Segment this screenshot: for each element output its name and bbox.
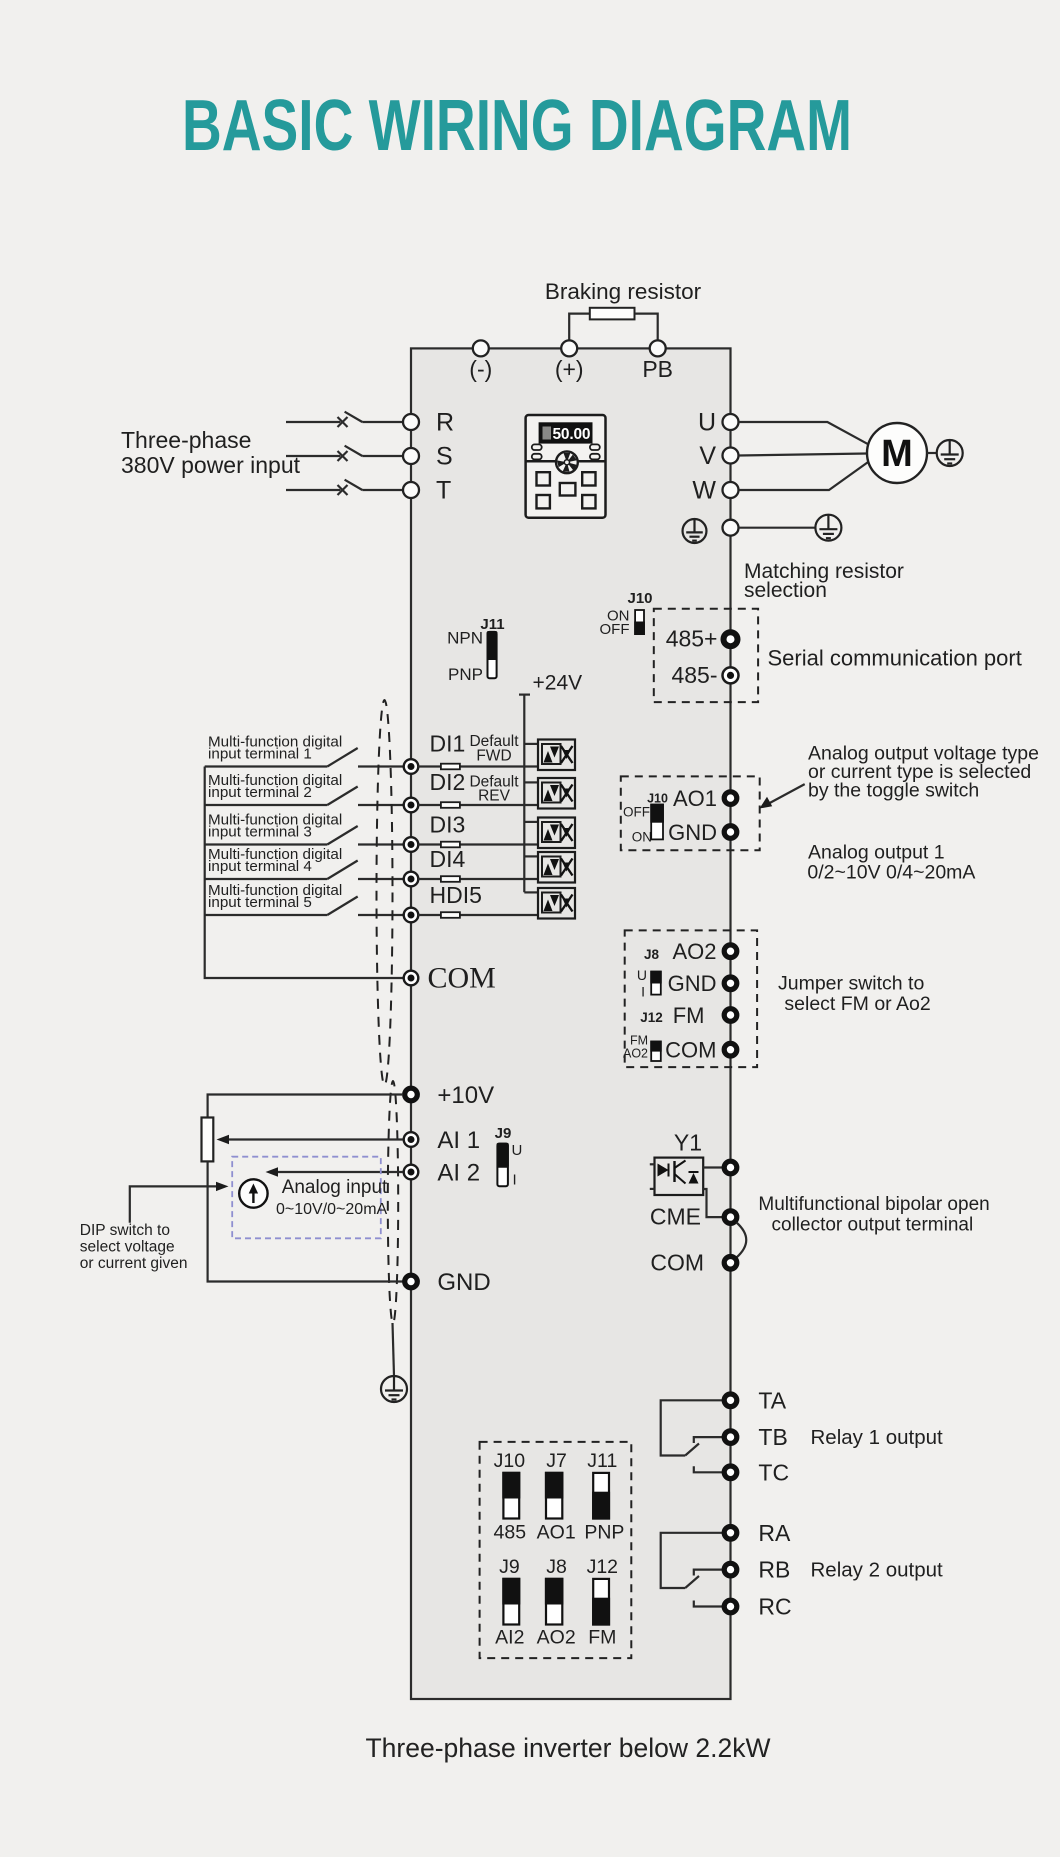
svg-text:PNP: PNP [584,1522,624,1544]
svg-text:GND: GND [668,820,717,845]
svg-text:selection: selection [744,579,827,602]
svg-text:RC: RC [758,1594,791,1620]
terminal GND AO1 [724,826,737,839]
svg-text:J12: J12 [587,1556,618,1578]
svg-text:J7: J7 [546,1450,567,1472]
wire switch common bus [205,767,403,979]
terminal DI3 [404,837,419,852]
terminal (-) [473,340,489,356]
svg-text:J8: J8 [644,947,660,962]
optocoupler HDI5 [538,888,575,919]
terminal RC [724,1600,737,1613]
svg-text:AO1: AO1 [673,786,717,811]
wire potentiometer to GND [208,1161,403,1281]
svg-text:485+: 485+ [666,626,718,652]
wire HDI5 internal [418,914,538,916]
terminal CME [724,1211,737,1224]
optocoupler DI2 [538,778,575,809]
wire CME out [703,1189,722,1217]
svg-text:input terminal 2: input terminal 2 [208,784,312,801]
svg-text:select voltage: select voltage [80,1239,175,1256]
terminal W [723,482,739,498]
terminal AI1 [404,1132,419,1147]
wire DI2 switch leg [205,804,328,806]
svg-text:AI 2: AI 2 [437,1160,480,1187]
switch lever DI3 [327,826,357,845]
jumper switch J11 bank [592,1473,610,1520]
jumper switch J7 bank [545,1472,564,1519]
svg-text:OFF: OFF [623,805,650,820]
svg-text:J12: J12 [640,1010,663,1025]
wire DI1 to terminal [358,765,403,767]
wire opto DI4 feed [524,855,538,857]
terminal FM [724,1009,737,1022]
serial port dashed box [654,609,758,702]
svg-text:V: V [699,442,716,470]
svg-text:J10: J10 [627,590,652,607]
svg-text:AO2: AO2 [537,1627,576,1649]
svg-text:FM: FM [630,1034,648,1048]
wire DI2 to terminal [358,804,403,806]
relay 2 common bracket [661,1533,722,1588]
switch lever DI1 [327,748,357,767]
svg-text:OFF: OFF [600,621,630,638]
wire (+) to braking resistor [569,314,590,349]
resistor DI4 [441,876,460,882]
svg-text:Analog output 1: Analog output 1 [808,842,945,864]
wire input phase R [286,421,340,423]
wire DI4 internal [418,878,538,880]
wire DI3 internal [418,843,538,845]
wire DI2 internal [418,804,538,806]
svg-text:I: I [641,984,645,1000]
terminal RB [724,1563,737,1576]
keypad panel [526,415,606,518]
svg-text:or current given: or current given [80,1255,188,1272]
svg-text:COM: COM [665,1038,716,1063]
terminal V [723,448,739,464]
svg-text:I: I [513,1172,517,1189]
svg-text:FWD: FWD [476,748,511,765]
terminal U [723,414,739,430]
potentiometer body [202,1118,214,1162]
svg-text:0~10V/0~20mA: 0~10V/0~20mA [276,1201,388,1218]
wire PE to earth [739,527,816,529]
jumper switch J9 bank [502,1578,520,1625]
node +24V bar [519,693,530,695]
switch lever DI2 [327,787,357,806]
svg-text:J10: J10 [647,792,668,806]
svg-text:+10V: +10V [437,1082,494,1109]
svg-text:U: U [512,1142,523,1159]
terminal +10V [405,1088,418,1101]
jumper switch J10 (AO1) [650,804,664,840]
wire shield to earth [393,1323,395,1376]
wire +24V rail [523,695,525,893]
svg-text:485: 485 [494,1522,527,1544]
optocoupler DI1 [538,740,575,771]
wire CME-COM link [737,1223,747,1258]
terminal 485- [723,667,739,683]
breaker contact R [338,412,404,427]
jumper switch J9 (U/I) [497,1143,509,1187]
svg-text:50.00: 50.00 [553,426,591,443]
svg-text:HDI5: HDI5 [430,882,482,908]
jumper switch J10 (485) [634,610,645,635]
wire HDI5 to terminal [358,914,403,916]
breaker contact T [338,480,404,495]
svg-text:Three-phase inverter below 2.2: Three-phase inverter below 2.2kW [365,1733,770,1763]
svg-text:J9: J9 [495,1125,512,1142]
wire DI4 to terminal [358,878,403,880]
inverter enclosure box [411,348,731,1699]
wire braking resistor to PB [635,314,658,349]
jumper switch J12 bank [592,1579,610,1626]
wire Y1 out [703,1166,722,1168]
jumper bank dashed box [480,1442,632,1658]
wire HDI5 switch leg [205,914,328,916]
wire input phase S [286,455,340,457]
resistor DI1 [441,764,460,770]
svg-text:BASIC WIRING DIAGRAM: BASIC WIRING DIAGRAM [182,86,852,166]
wire opto DI3 feed [524,821,538,823]
optocoupler DI3 [538,818,575,849]
svg-text:input terminal 1: input terminal 1 [208,746,312,763]
svg-text:COM: COM [650,1250,704,1276]
svg-text:T: T [436,477,451,505]
shield ellipse digital inputs [377,700,393,1085]
relay 2 NO stub [694,1601,722,1607]
svg-text:TB: TB [758,1424,787,1450]
wire opto DI2 feed [524,781,538,783]
jumper switch J12 (FM/AO2) [650,1041,661,1061]
jumper switch J8 bank [545,1578,564,1625]
wire DI4 switch leg [205,878,328,880]
terminal AI2 [404,1165,419,1180]
AO2 dashed box [625,930,757,1067]
terminal COM right [724,1257,737,1270]
relay 2 NC stub [694,1570,722,1576]
switch lever DI4 [327,861,357,880]
wire motor to earth [927,452,937,454]
relay 1 NO stub [694,1466,722,1472]
svg-text:AI 1: AI 1 [437,1127,480,1154]
svg-text:input terminal 3: input terminal 3 [208,824,312,841]
svg-text:RA: RA [758,1520,791,1546]
svg-text:U: U [637,967,647,983]
svg-text:380V power input: 380V power input [121,452,301,478]
svg-text:GND: GND [668,971,717,996]
svg-text:AO2: AO2 [672,939,716,964]
relay 1 NC stub [694,1437,722,1443]
terminal GND left [405,1275,418,1288]
svg-text:TA: TA [758,1388,786,1414]
shield ellipse analog inputs [388,1081,398,1323]
breaker contact S [338,446,404,461]
svg-text:by the toggle switch: by the toggle switch [808,780,979,802]
ground chassis inside box [683,519,707,543]
svg-text:select FM or Ao2: select FM or Ao2 [784,993,930,1015]
svg-text:Analog input: Analog input [282,1177,388,1198]
wire DI1 internal [418,765,538,767]
svg-text:Multifunctional bipolar open: Multifunctional bipolar open [758,1194,989,1215]
arrow DIP switch [130,1182,229,1223]
terminal DI1 [404,759,419,774]
terminal DI2 [404,798,419,813]
terminal Y1 [724,1161,737,1174]
svg-text:Jumper switch to: Jumper switch to [778,973,924,995]
svg-text:input terminal 5: input terminal 5 [208,894,312,911]
terminal AO1 [724,792,737,805]
wire input phase T [286,489,340,491]
wire opto HDI5 feed [524,891,538,893]
wire DI1 switch leg [205,765,328,767]
svg-text:W: W [692,477,716,505]
svg-text:J8: J8 [546,1556,567,1578]
svg-text:DI1: DI1 [430,731,466,757]
terminal R [403,414,419,430]
svg-text:AO1: AO1 [537,1522,576,1544]
terminal S [403,448,419,464]
svg-text:R: R [436,409,454,437]
svg-text:NPN: NPN [447,629,483,648]
terminal DI4 [404,872,419,887]
svg-text:CME: CME [650,1204,701,1230]
relay 1 lever [685,1444,699,1456]
svg-text:J9: J9 [499,1556,520,1578]
ground PE earth [815,515,841,541]
wire DI3 to terminal [358,843,403,845]
svg-text:AI2: AI2 [495,1627,524,1649]
wire AI1 wiper arrow [217,1135,404,1144]
wire +10V to potentiometer [208,1095,403,1118]
resistor DI2 [441,802,460,808]
relay 2 lever [685,1576,699,1588]
svg-text:PNP: PNP [448,665,483,684]
svg-text:ON: ON [632,830,652,845]
svg-text:Relay 2 output: Relay 2 output [811,1559,944,1582]
optocoupler DI4 [538,852,575,883]
resistor DI3 [441,842,460,848]
svg-text:FM: FM [673,1003,705,1028]
terminal COM AO2 [724,1043,737,1056]
arrow to AO1 box [760,784,805,808]
svg-text:AO2: AO2 [623,1047,648,1061]
terminal TB [724,1431,737,1444]
wire opto DI1 feed [524,743,538,745]
svg-text:PB: PB [642,356,673,382]
AO1 dashed box [621,776,760,850]
svg-text:Three-phase: Three-phase [121,427,251,453]
switch lever HDI5 [327,897,357,916]
optocoupler Y1 [650,1158,703,1195]
terminal PE [723,520,739,536]
svg-text:+24V: +24V [533,672,583,695]
terminal GND AO2 [724,977,737,990]
wire DI3 switch leg [205,843,328,845]
wire V to motor [739,454,868,456]
ground shield earth [381,1376,407,1402]
terminal 485+ [724,632,738,646]
analog input dashed box [232,1157,381,1239]
svg-text:J10: J10 [494,1450,526,1472]
jumper switch J11 (NPN/PNP) [487,631,498,678]
svg-text:DI3: DI3 [430,812,466,838]
svg-text:Serial communication port: Serial communication port [768,646,1022,671]
terminal TA [724,1394,737,1407]
svg-text:COM: COM [428,962,496,995]
svg-text:Braking resistor: Braking resistor [545,279,702,304]
terminal PB [650,340,666,356]
svg-text:FM: FM [588,1627,616,1649]
terminal (+) [561,340,577,356]
svg-text:Relay 1 output: Relay 1 output [811,1426,944,1449]
resistor HDI5 [441,912,460,918]
svg-text:485-: 485- [671,662,717,688]
terminal HDI5 [404,908,419,923]
relay 1 common bracket [661,1400,722,1455]
svg-text:RB: RB [758,1557,790,1583]
svg-text:collector output terminal: collector output terminal [772,1215,974,1236]
ground motor earth [937,440,963,466]
svg-text:DI4: DI4 [430,846,466,872]
svg-text:J11: J11 [480,616,504,633]
terminal AO2 [724,945,737,958]
jumper switch J8 (U/I) [650,971,661,995]
svg-text:TC: TC [758,1460,789,1486]
svg-text:REV: REV [478,788,511,805]
svg-text:J11: J11 [587,1450,617,1472]
motor M [867,423,927,483]
wire W to motor [739,462,869,490]
svg-text:Y1: Y1 [674,1130,702,1156]
terminal T [403,482,419,498]
svg-text:DI2: DI2 [430,769,466,795]
braking resistor body [590,308,635,320]
svg-text:DIP switch to: DIP switch to [80,1222,170,1239]
svg-text:U: U [698,409,716,437]
current source symbol [239,1179,267,1207]
svg-text:0/2~10V 0/4~20mA: 0/2~10V 0/4~20mA [807,862,975,884]
svg-text:(+): (+) [555,356,584,382]
svg-text:S: S [436,443,453,471]
terminal RA [724,1527,737,1540]
wire U to motor [739,422,869,444]
jumper switch J10 bank [502,1472,520,1519]
svg-text:input terminal 4: input terminal 4 [208,858,312,875]
wire AI2 arrow [266,1167,404,1176]
terminal TC [724,1466,737,1479]
terminal COM left [404,971,419,986]
svg-text:GND: GND [437,1269,490,1296]
svg-text:M: M [881,433,913,475]
svg-text:(-): (-) [469,356,492,382]
